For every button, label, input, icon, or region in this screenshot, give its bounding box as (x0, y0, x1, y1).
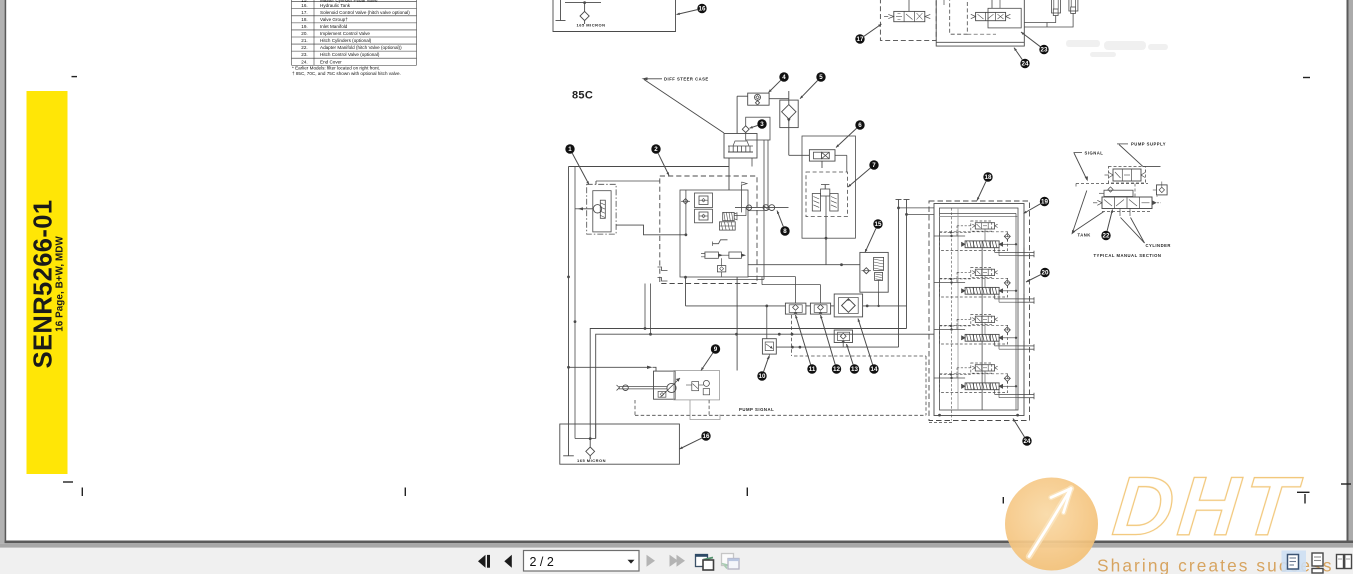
callout ball 8 (780, 226, 789, 235)
inner frame bottom junction dots (938, 414, 941, 417)
check valve 13 (834, 330, 852, 343)
callout ball 16 (701, 431, 710, 440)
callout 23 leader (1021, 32, 1040, 47)
callout ball 3 (757, 119, 766, 128)
scan ghost smudges (1066, 40, 1168, 57)
svg-text:CYLINDER: CYLINDER (1146, 243, 1171, 248)
orifice 8 (746, 205, 751, 210)
feed wire (934, 282, 965, 284)
makeup valve enclosure (746, 117, 770, 140)
reducing valve 7 dashed box (806, 172, 848, 217)
svg-text:SIGNAL: SIGNAL (1085, 151, 1104, 156)
top rail (940, 212, 1017, 214)
spool links (984, 371, 986, 383)
svg-text:17.: 17. (301, 10, 307, 15)
small relief below (658, 391, 666, 397)
toolbar first page button (478, 555, 512, 568)
parts legend table (292, 0, 417, 65)
pump signal dashed closeout (929, 422, 953, 424)
svg-text:5: 5 (819, 74, 823, 81)
svg-text:165 MICRON: 165 MICRON (577, 22, 606, 27)
callout ball 4 (779, 72, 788, 81)
callout ball 16 (697, 4, 706, 13)
pump housing (674, 371, 720, 400)
svg-text:4: 4 (782, 74, 786, 81)
load check (typical) (1157, 185, 1168, 195)
trunk line left 1 (568, 167, 570, 425)
valve group 2 dashed box (660, 176, 757, 284)
svg-text:24.: 24. (301, 59, 307, 64)
callout 10 leader (764, 356, 769, 372)
wire y264.7 (748, 264, 860, 266)
spool with spring (723, 212, 735, 220)
svg-text:DHT: DHT (1109, 460, 1305, 553)
DIFF STEER CASE label (664, 76, 709, 81)
check valve 4 (748, 93, 769, 105)
wire y347.1 (776, 346, 898, 348)
reducing valve 7 body (812, 194, 820, 212)
supply trunk wire (596, 334, 934, 438)
hydraulic tank 16 (bottom) (560, 424, 680, 464)
pump 1 inlet arrow (578, 208, 593, 210)
toolbar next view icon (disabled) (722, 554, 740, 570)
bottom small valve (717, 266, 725, 272)
svg-text:Implement Control Valve: Implement Control Valve (320, 31, 370, 36)
compensator dashed box (971, 268, 992, 278)
wire riser to cutoff valve (766, 306, 768, 339)
toolbar last page button (disabled) (670, 555, 679, 567)
leader (647, 78, 662, 80)
compensator spool (975, 365, 994, 371)
pump 1 dash-dot box (587, 184, 616, 234)
tank wires down (568, 424, 570, 456)
svg-text:16.: 16. (301, 3, 307, 8)
main control spool (965, 383, 999, 390)
85C drawing title (572, 90, 593, 102)
callout ball 14 (869, 364, 878, 373)
svg-text:Hitch Cylinders (optional): Hitch Cylinders (optional) (320, 38, 372, 43)
wire (565, 2, 601, 4)
callout ball 12 (832, 364, 841, 373)
hitch control valve spool 23 (976, 12, 1006, 20)
PUMP SUPPLY label (1131, 142, 1166, 147)
dashed tank line (1102, 211, 1152, 213)
section dashed box (940, 232, 1008, 251)
callout 17 leader (864, 24, 882, 36)
solenoid cross (821, 152, 829, 159)
wire y305.9 check row (685, 277, 687, 306)
port check (1004, 280, 1010, 286)
svg-text:10: 10 (759, 373, 766, 380)
pump circle (667, 383, 676, 392)
svg-text:End Cover: End Cover (320, 59, 342, 64)
diff steer case box (724, 134, 757, 159)
manual control valve (typical) (1102, 197, 1152, 209)
callout ball 7 (869, 160, 878, 169)
brush marks inside steer case (728, 146, 730, 152)
yellow banner SENR5266-01 (27, 91, 68, 474)
spool links (984, 323, 986, 335)
wire 7 down (825, 217, 827, 239)
svg-text:Adapter Manifold (hitch Valve: Adapter Manifold (hitch Valve (optional)… (320, 45, 402, 50)
solenoid control valve 6 (809, 150, 835, 161)
solenoid control valve 17 dashed box (880, 0, 936, 40)
signal line (735, 207, 789, 209)
svg-text:165 MICRON: 165 MICRON (577, 458, 606, 463)
svg-text:* Earlier Models: filter locat: * Earlier Models: filter located on righ… (292, 66, 380, 71)
feed wire (934, 329, 965, 331)
pump inlet wire (568, 366, 649, 368)
valve group inner box (680, 190, 748, 277)
svg-text:23: 23 (1041, 47, 1048, 54)
TYPICAL MANUAL SECTION title (1094, 253, 1162, 258)
callout 15 leader (865, 228, 876, 252)
callout ball 22 (1101, 231, 1110, 240)
svg-text:TANK: TANK (1078, 232, 1091, 237)
svg-text:18.: 18. (301, 17, 307, 22)
wire inner box to orifice pair (748, 210, 764, 212)
breather flag (741, 182, 743, 212)
boxed relief valve b (695, 209, 713, 223)
wires into inlet manifold (899, 207, 935, 209)
wire pump1 top to valve group (595, 181, 597, 184)
toolbar next page button (disabled) (647, 555, 686, 567)
svg-text:24: 24 (1022, 61, 1029, 68)
hydraulic tank 16 (top) (553, 0, 676, 32)
signal relief valve (typical) (1109, 167, 1146, 184)
callout ball 23 (1039, 45, 1048, 54)
svg-text:3: 3 (760, 121, 764, 128)
continuous view icon (1312, 553, 1323, 573)
callout ball 9 (711, 344, 720, 353)
comp15 drop (878, 292, 880, 306)
compensator dashed box (971, 315, 992, 325)
pump 1 inner box (593, 191, 611, 232)
check valve 12 (810, 303, 830, 314)
wire y284.6 (762, 284, 821, 286)
callout 20 leader (1026, 275, 1041, 282)
callout ball 20 (1040, 268, 1049, 277)
valve group to pump supply wire (736, 277, 738, 371)
callout 12 leader (821, 315, 836, 365)
svg-text:23.: 23. (301, 52, 307, 57)
svg-text:15: 15 (875, 221, 882, 228)
wire steer to valve group (736, 96, 738, 133)
makeup check valve 3 (742, 126, 749, 133)
svg-text:22: 22 (1103, 233, 1110, 240)
callout 1 leader (572, 153, 589, 184)
wire (737, 95, 748, 97)
drive shaft (619, 386, 667, 388)
watermark arrow (1029, 489, 1071, 557)
section dashed box (940, 374, 1008, 393)
feed wire (934, 235, 965, 237)
svg-text:16: 16 (703, 433, 710, 440)
svg-text:14: 14 (871, 366, 878, 373)
check valve 11 (785, 303, 806, 314)
hitch valve solid box (988, 8, 1021, 28)
watermark circle logo (1005, 478, 1098, 571)
pressure cutoff 10 (762, 339, 776, 354)
port check (1004, 233, 1010, 239)
callout 8 leader (777, 211, 783, 227)
compensator spool (975, 223, 994, 229)
trunk line left 2 (574, 167, 576, 425)
svg-text:16 Page, B+W, MDW: 16 Page, B+W, MDW (55, 236, 66, 332)
svg-text:DIFF STEER CASE: DIFF STEER CASE (664, 76, 709, 81)
hitch manifold outer box (936, 0, 1024, 46)
svg-text:19: 19 (1041, 199, 1048, 206)
svg-text:6: 6 (858, 122, 862, 129)
work port stubs (1003, 337, 1016, 339)
svg-text:20.: 20. (301, 31, 307, 36)
cartridge valve right (729, 252, 742, 258)
cartridge valve left (705, 252, 719, 258)
flow control 14 (834, 294, 862, 317)
pump signal dashed wire (634, 400, 636, 415)
full height section dashed rail (951, 208, 953, 421)
solenoid spool (720, 222, 736, 230)
port check (1004, 327, 1010, 333)
svg-text:18: 18 (985, 174, 992, 181)
svg-text:PUMP SIGNAL: PUMP SIGNAL (739, 407, 774, 412)
callout 3 leader (750, 126, 758, 129)
registration marks (63, 77, 1351, 504)
implement pump 9 box (654, 371, 676, 399)
svg-text:Solenoid Control Valve (hitch: Solenoid Control Valve (hitch valve opti… (320, 10, 410, 15)
port check (1004, 375, 1010, 381)
pressure reducing valve 15 (860, 252, 888, 292)
callout 13 leader (847, 344, 854, 365)
callout 5 leader (800, 80, 818, 98)
compensator spool (975, 316, 994, 322)
small check left (683, 199, 688, 204)
callout 14 leader (858, 319, 873, 365)
svg-text:Hitch Control Valve (optional): Hitch Control Valve (optional) (320, 52, 380, 57)
step marks on box2 left (658, 267, 668, 271)
hitch cylinder 21 b (1069, 0, 1078, 11)
compensator dashed box (971, 221, 992, 231)
valve group 18 dashed outline (929, 201, 1030, 421)
svg-text:85C: 85C (572, 90, 593, 102)
svg-text:2 / 2: 2 / 2 (530, 555, 554, 569)
svg-text:22.: 22. (301, 45, 307, 50)
svg-text:Inlet Manifold: Inlet Manifold (320, 24, 348, 29)
svg-text:19.: 19. (301, 24, 307, 29)
svg-text:9: 9 (714, 346, 718, 353)
svg-text:21.: 21. (301, 38, 307, 43)
work port stubs (1003, 290, 1016, 292)
charge pump 1 symbol (593, 205, 601, 213)
main control spool (965, 334, 999, 341)
callout ball 10 (757, 371, 766, 380)
watermark slogan (1097, 556, 1334, 574)
callout 22 leader (1107, 210, 1112, 231)
hitch cylinder 21 a (1052, 0, 1061, 13)
wire right risers (898, 200, 900, 348)
svg-text:1: 1 (568, 146, 572, 153)
solenoid valve 6 outer box (802, 136, 855, 238)
signal trunk wire (590, 329, 906, 439)
hitch solenoid spool (894, 11, 925, 21)
feed wire (934, 377, 965, 379)
svg-text:TYPICAL MANUAL SECTION: TYPICAL MANUAL SECTION (1094, 253, 1162, 258)
TANK label (1078, 232, 1091, 237)
toolbar previous view icon (695, 554, 714, 570)
callout 9 leader (701, 353, 713, 371)
callout ball 24 (1022, 436, 1031, 445)
svg-text:13: 13 (851, 366, 858, 373)
callout 7 leader (848, 168, 870, 187)
svg-text:Valve Group†: Valve Group† (320, 17, 348, 22)
main control spool (965, 287, 999, 294)
tank level symbol (560, 0, 562, 21)
watermark DHT lettering (1109, 460, 1305, 553)
callout ball 17 (855, 34, 864, 43)
callout 2 leader (658, 153, 669, 175)
svg-text:PUMP SUPPLY: PUMP SUPPLY (1131, 142, 1166, 147)
group2 drop wires (644, 284, 646, 329)
pump case box extension (690, 400, 720, 420)
callout ball 5 (816, 72, 825, 81)
wire filter down to manifold (788, 128, 790, 156)
callout 16 leader (677, 10, 698, 15)
callout ball 6 (855, 120, 864, 129)
callout 19 leader (1024, 204, 1041, 214)
CYLINDER label (1146, 243, 1171, 248)
callout 4 leader (769, 80, 781, 92)
svg-text:8: 8 (783, 228, 787, 235)
toolbar page box (524, 551, 640, 572)
toolbar prev page button (504, 555, 512, 568)
spool links (984, 229, 986, 241)
inner box second outline (698, 278, 765, 280)
wire stubs from cut top (908, 0, 910, 11)
compensator small box (1104, 190, 1133, 196)
main control spool (965, 241, 999, 248)
work port stubs (1003, 243, 1016, 245)
wire 6 to 7 (821, 161, 823, 168)
filter 165 micron bottom (586, 447, 595, 456)
callout ball 24 (1020, 59, 1029, 68)
svg-text:17: 17 (857, 36, 864, 43)
callout 24 leader (1013, 419, 1025, 438)
SIGNAL label (1085, 151, 1104, 156)
compensator spool (975, 269, 994, 275)
svg-text:11: 11 (809, 366, 816, 373)
svg-text:24: 24 (1024, 438, 1031, 445)
wire y276.6 (748, 276, 796, 278)
regulator internals (692, 382, 699, 391)
inlet manifold 19 outer box (934, 204, 1024, 416)
grey rail (940, 216, 1019, 218)
svg-text:2: 2 (654, 146, 658, 153)
inner dashed partitions (950, 0, 968, 34)
case drain filter 5 (780, 100, 798, 128)
inner frame (940, 208, 1019, 410)
svg-text:12: 12 (833, 366, 840, 373)
cylinder ports (1119, 209, 1121, 217)
boxed relief valve a (695, 193, 713, 208)
svg-text:20: 20 (1042, 270, 1049, 277)
callout 24 leader (1014, 48, 1022, 60)
facing pages icon (1337, 555, 1352, 569)
callout ball 1 (565, 144, 574, 153)
signal network dashed (1076, 183, 1148, 185)
spool links (984, 276, 986, 288)
section dashed box (940, 278, 1008, 297)
svg-text:SENR5266-01: SENR5266-01 (30, 200, 58, 369)
callout ball 13 (850, 364, 859, 373)
section dashed box (940, 325, 1008, 344)
callout 16 leader (680, 438, 702, 449)
svg-text:7: 7 (872, 162, 876, 169)
PUMP SIGNAL label (739, 407, 774, 412)
filter (165 micron) top (580, 11, 589, 20)
callout 11 leader (796, 315, 811, 365)
callout ball 18 (983, 172, 992, 181)
callout ball 2 (651, 144, 660, 153)
enclosure box top (569, 166, 730, 168)
single page view icon (active) (1282, 551, 1307, 573)
cylinder wires (1024, 16, 1055, 23)
center supply rail (981, 248, 983, 410)
work port stubs (1003, 385, 1016, 387)
callout ball 11 (807, 364, 816, 373)
callout 6 leader (836, 128, 857, 147)
svg-text:Hydraulic Tank: Hydraulic Tank (320, 3, 351, 8)
callout ball 15 (873, 219, 882, 228)
callout ball 19 (1040, 197, 1049, 206)
small spool (713, 240, 728, 244)
wire pump1 out (616, 225, 686, 235)
callout 18 leader (977, 181, 986, 200)
compensator dashed box (971, 363, 992, 373)
svg-text:16: 16 (699, 6, 706, 13)
svg-text:† 85C, 70C, and 75C shown with: † 85C, 70C, and 75C shown with optional … (292, 71, 401, 76)
